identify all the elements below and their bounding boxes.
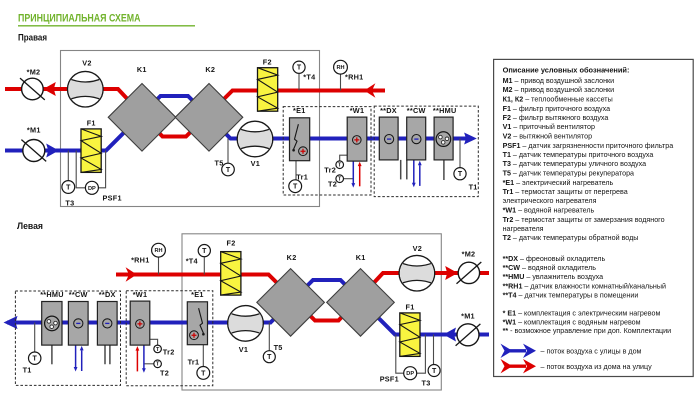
svg-text:PSF1: PSF1 (103, 193, 122, 202)
filter F2 (258, 68, 278, 112)
sensor Tr2 (336, 161, 344, 169)
wire blue supply bottom (7, 280, 489, 335)
svg-text:**HMU – увлажнитель воздуха: **HMU – увлажнитель воздуха (503, 273, 604, 281)
wire red exhaust bottom (116, 273, 489, 321)
svg-text:Правая: Правая (18, 33, 47, 44)
svg-text:*W1 – водяной нагреватель: *W1 – водяной нагреватель (503, 207, 595, 215)
svg-text:V2: V2 (413, 244, 422, 253)
lead PSF1 taps bottom (396, 335, 426, 374)
svg-text:* Е1 – комплектация с электрич: * Е1 – комплектация с электрическим нагр… (503, 309, 661, 317)
svg-text:Tr2 – термостат защиты от заме: Tr2 – термостат защиты от замерзания вод… (503, 216, 665, 224)
svg-text:**DX: **DX (380, 106, 397, 115)
heat exchanger K2b (257, 269, 325, 337)
svg-text:Описание условных обозначений:: Описание условных обозначений: (503, 66, 630, 75)
option box E1 W1 (283, 107, 371, 195)
svg-text:K2: K2 (287, 253, 297, 262)
water pipes W1 top (351, 160, 361, 188)
svg-text:T1: T1 (23, 366, 32, 375)
svg-text:ПРИНЦИПИАЛЬНАЯ СХЕМА: ПРИНЦИПИАЛЬНАЯ СХЕМА (18, 12, 141, 24)
svg-text:М1 – привод воздушной заслонки: М1 – привод воздушной заслонки (503, 77, 615, 85)
dx cooler DX bottom (97, 302, 117, 346)
lead PSF1 taps (76, 151, 105, 188)
fan V2b (399, 255, 435, 291)
option box DX CW HMU (374, 106, 478, 197)
lead T1 bottom (34, 323, 36, 353)
svg-text:*T4: *T4 (303, 73, 316, 82)
svg-text:T: T (297, 65, 302, 72)
svg-text:К1, К2 – теплообменные кассеты: К1, К2 – теплообменные кассеты (503, 96, 613, 104)
svg-text:*RH1: *RH1 (131, 256, 149, 265)
svg-text:V1: V1 (251, 159, 260, 168)
svg-text:K2: K2 (205, 65, 215, 74)
svg-text:Tr2: Tr2 (163, 348, 175, 357)
sensor Tr1 (289, 180, 302, 193)
title (18, 12, 195, 26)
svg-text:Т2 – датчик температуры обрат: Т2 – датчик температуры обратной воды (503, 234, 639, 242)
filter F1 (81, 129, 101, 173)
flow arrow red M2 (43, 82, 56, 96)
fan V1b (228, 306, 264, 342)
lead Tr2 (340, 155, 348, 161)
sensor T4 (293, 61, 305, 73)
svg-text:T3: T3 (65, 199, 74, 208)
svg-text:**CW: **CW (407, 106, 426, 115)
svg-text:K1: K1 (137, 65, 147, 74)
sensor T2 (336, 175, 344, 183)
unit casing bottom (182, 234, 441, 390)
legend box (494, 59, 694, 376)
svg-text:*RH1: *RH1 (345, 73, 363, 82)
unit casing top (61, 51, 320, 207)
lead T5 bottom (268, 323, 270, 351)
svg-text:T: T (226, 167, 231, 174)
svg-text:RH: RH (336, 65, 344, 71)
svg-text:**HMU: **HMU (40, 290, 64, 299)
option box HMU CW DX bottom (15, 291, 120, 385)
svg-text:V1: V1 (239, 345, 248, 354)
svg-text:**RH1 – датчик влажности комна: **RH1 – датчик влажности комнатный/канал… (503, 282, 666, 290)
fan V2 (68, 71, 104, 107)
svg-text:K1: K1 (356, 253, 366, 262)
sensor RH1b (152, 243, 166, 257)
lead RH1 (340, 74, 342, 90)
svg-text:V1 – приточный вентилятор: V1 – приточный вентилятор (503, 123, 595, 131)
lead T3 (67, 151, 69, 181)
svg-text:T5: T5 (274, 343, 283, 352)
svg-text:**Т4 – датчик температуры в по: **Т4 – датчик температуры в помещении (503, 291, 639, 299)
svg-text:T2: T2 (160, 369, 169, 378)
svg-text:DP: DP (88, 186, 96, 192)
water heater W1 bottom (130, 301, 150, 345)
svg-text:DP: DP (406, 371, 414, 377)
sensor Tr1b (197, 367, 210, 380)
sensor PSF1b (404, 367, 417, 380)
lead Tr2 bottom (150, 339, 158, 345)
humidifier HMU bottom (42, 302, 62, 346)
lead T1 (459, 139, 461, 168)
water cooler CW bottom (68, 302, 88, 346)
svg-text:Tr2: Tr2 (324, 166, 336, 175)
sensor T3 (62, 181, 75, 194)
svg-text:F2: F2 (263, 58, 272, 67)
svg-text:Т3 – датчик температуры улично: Т3 – датчик температуры уличного воздуха (503, 160, 647, 168)
lead DX pipes bottom (105, 345, 110, 364)
filter F1b (400, 313, 420, 357)
svg-text:T: T (267, 354, 272, 361)
svg-text:**HMU: **HMU (433, 106, 457, 115)
lead HMU drain bottom (51, 345, 53, 364)
electric heater E1 (290, 118, 310, 161)
svg-text:T2: T2 (328, 180, 337, 189)
svg-text:T1: T1 (469, 183, 478, 192)
water pipes CW top (412, 160, 422, 187)
heat exchanger K1b (327, 269, 395, 337)
svg-text:V2 – вытяжной вентилятор: V2 – вытяжной вентилятор (503, 133, 592, 141)
svg-text:*М2: *М2 (462, 250, 476, 259)
legend lines group 1 (503, 77, 674, 242)
lead CW pipe (406, 160, 408, 180)
svg-text:T: T (202, 248, 207, 255)
lead T3 bottom (433, 335, 435, 365)
svg-text:PSF1 – датчик загрязненности п: PSF1 – датчик загрязненности приточного … (503, 142, 674, 150)
lead T4 bottom (203, 257, 205, 275)
svg-text:F2: F2 (226, 239, 235, 248)
labels top (27, 58, 478, 208)
lead T2 (344, 178, 354, 180)
lead DX pipe (400, 160, 402, 180)
lead Tr1 (295, 161, 297, 180)
svg-text:М2 – привод воздушной заслонки: М2 – привод воздушной заслонки (503, 86, 615, 94)
damper actuator M1 (21, 140, 46, 162)
svg-text:*Е1 – электрический нагревател: *Е1 – электрический нагреватель (503, 179, 614, 187)
flow arrow blue M1 (46, 144, 59, 158)
svg-text:Т1 – датчик температуры приточ: Т1 – датчик температуры приточного возду… (503, 151, 654, 159)
svg-text:F2 – фильтр вытяжного воздуха: F2 – фильтр вытяжного воздуха (503, 114, 609, 122)
lead T5 (227, 139, 229, 164)
legend lines group 2 (503, 255, 666, 299)
wire red exhaust top (5, 89, 385, 137)
svg-text:– поток воздуха с улицы в дом: – поток воздуха с улицы в дом (541, 348, 642, 356)
lead T2 bottom (144, 363, 154, 365)
svg-text:электрического нагревателя: электрического нагревателя (503, 197, 597, 205)
svg-text:V2: V2 (82, 58, 91, 67)
dx cooler DX (379, 117, 398, 160)
lead Tr1 bottom (202, 345, 204, 367)
svg-text:Tr1: Tr1 (296, 172, 308, 181)
svg-text:Tr1: Tr1 (188, 357, 200, 366)
wire blue supply top (5, 96, 468, 151)
sensor PSF1 (85, 181, 98, 194)
heat exchanger K1 (108, 84, 176, 152)
svg-text:*T4: *T4 (186, 256, 199, 265)
svg-text:**CW: **CW (69, 290, 88, 299)
svg-text:T: T (33, 356, 38, 363)
water pipes W1 bottom (136, 345, 146, 373)
svg-text:*W1: *W1 (133, 290, 148, 299)
svg-text:T: T (293, 184, 298, 191)
svg-text:*W1: *W1 (350, 106, 365, 115)
svg-text:RH: RH (154, 248, 162, 254)
svg-text:T3: T3 (422, 379, 431, 388)
flow arrow blue left bottom (4, 316, 18, 329)
sensor T1b (29, 352, 41, 364)
sensor T2b (154, 360, 162, 368)
svg-text:F1 – фильтр приточного воздуха: F1 – фильтр приточного воздуха (503, 105, 611, 113)
damper actuator M2 (20, 78, 45, 100)
flow arrow blue end top (464, 133, 477, 145)
sensor T4b (198, 245, 210, 257)
sensor T1 (454, 168, 466, 180)
svg-text:T: T (201, 370, 206, 377)
labels bottom (23, 239, 476, 388)
svg-text:T: T (458, 171, 463, 178)
svg-text:**DX: **DX (99, 290, 116, 299)
humidifier HMU (434, 117, 453, 160)
svg-text:** - возможное управление при: ** - возможное управление при доп. Компл… (503, 327, 672, 335)
svg-text:T: T (66, 185, 71, 192)
svg-text:*М1: *М1 (461, 311, 475, 320)
svg-text:нагревателя: нагревателя (503, 225, 544, 233)
option box W1 E1 bottom (126, 291, 213, 386)
water heater W1 (347, 117, 367, 161)
flow arrow red M2 bottom (445, 266, 458, 280)
svg-text:Т5 – датчик температуры рекупе: Т5 – датчик температуры рекуператора (503, 170, 634, 178)
sensor T5b (263, 351, 275, 363)
sensor RH1 (334, 60, 348, 74)
water pipes CW bottom (74, 345, 84, 371)
water cooler CW (407, 117, 426, 160)
lead HMU drain (443, 160, 445, 180)
sensor Tr2b (154, 345, 162, 353)
svg-text:– поток воздуха из дома на ул: – поток воздуха из дома на улицу (541, 363, 653, 371)
svg-text:F1: F1 (405, 303, 414, 312)
legend arrow red exhaust (501, 359, 537, 373)
legend lines group 3 (503, 309, 672, 335)
lead T4 (298, 73, 300, 90)
fan V1 (237, 121, 273, 157)
svg-text:*М1: *М1 (27, 126, 41, 135)
svg-text:Левая: Левая (17, 221, 43, 232)
svg-text:*М2: *М2 (27, 67, 41, 76)
heat exchanger K2 (175, 84, 243, 152)
svg-text:T5: T5 (214, 159, 223, 168)
sensor T5 (222, 163, 235, 176)
svg-text:**DX – фреоновый охладитель: **DX – фреоновый охладитель (503, 255, 606, 263)
svg-text:*W1 – комплектация с водяным н: *W1 – комплектация с водяным нагревом (503, 318, 641, 326)
svg-text:Tr1 – термостат защиты от пере: Tr1 – термостат защиты от перегрева (503, 188, 628, 196)
svg-text:F1: F1 (87, 119, 96, 128)
damper actuator M2b (457, 262, 482, 284)
sensor T3b (428, 365, 440, 377)
svg-text:**CW – водяной охладитель: **CW – водяной охладитель (503, 264, 597, 272)
lead RH1 bottom (158, 257, 160, 274)
flow arrow red mid bottom (126, 267, 137, 282)
flow arrow blue M1 bottom (443, 328, 456, 342)
svg-text:PSF1: PSF1 (380, 375, 399, 384)
electric heater E1 bottom (187, 302, 207, 345)
svg-text:*E1: *E1 (293, 106, 306, 115)
flow arrow red mid top (364, 83, 375, 98)
filter F2b (221, 252, 241, 296)
damper actuator M1b (456, 324, 481, 346)
legend arrow blue supply (501, 344, 537, 358)
svg-text:*E1: *E1 (191, 290, 204, 299)
svg-text:T: T (432, 368, 437, 375)
